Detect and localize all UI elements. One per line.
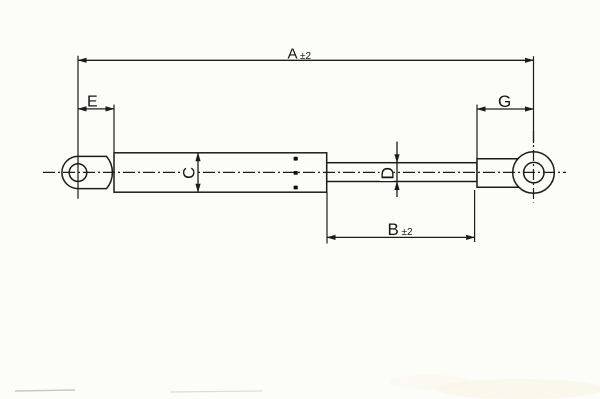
svg-text:E: E bbox=[87, 94, 98, 111]
svg-text:G: G bbox=[498, 92, 511, 111]
svg-text:±2: ±2 bbox=[402, 227, 413, 238]
svg-text:±2: ±2 bbox=[300, 51, 311, 62]
svg-text:B: B bbox=[388, 220, 399, 239]
svg-text:D: D bbox=[378, 167, 398, 180]
svg-text:C: C bbox=[181, 167, 199, 179]
svg-text:A: A bbox=[288, 46, 298, 63]
